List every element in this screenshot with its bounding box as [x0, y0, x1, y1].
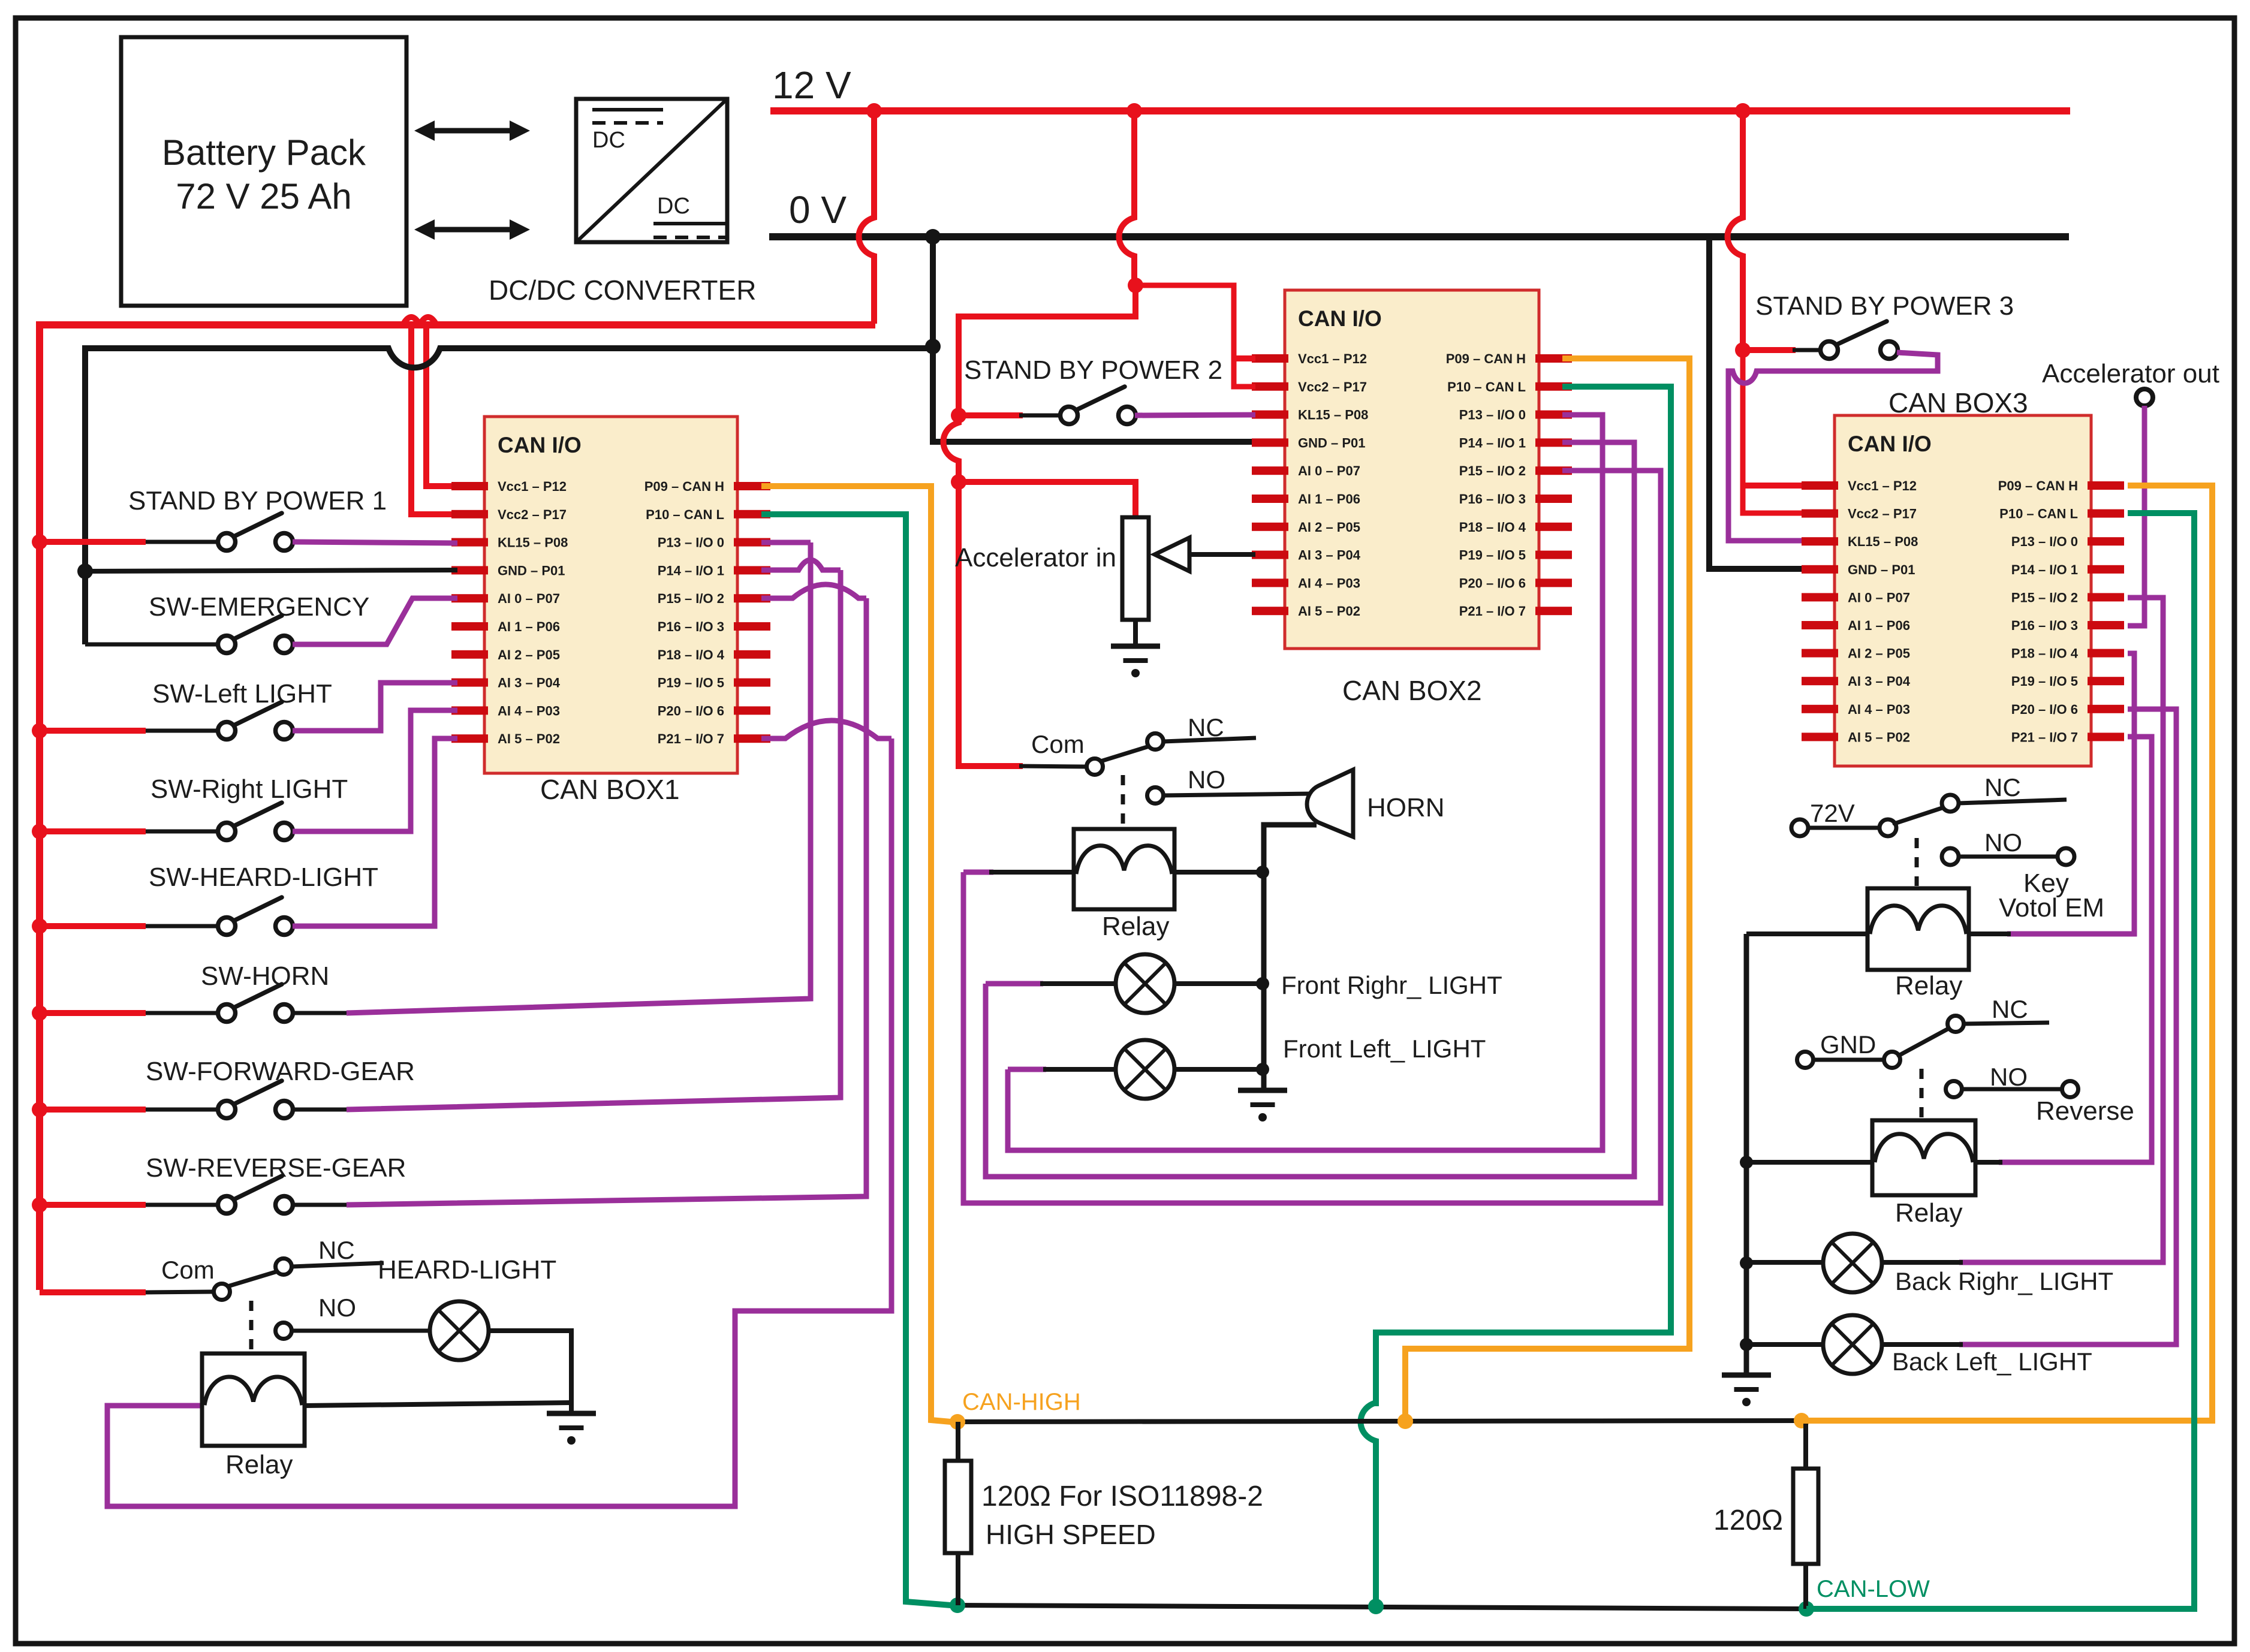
STAND BY POWER 3 label	[1755, 291, 2014, 321]
svg-text:P13 – I/O 0: P13 – I/O 0	[2011, 534, 2078, 549]
node rail feed S-LEFT	[32, 723, 47, 738]
HEARD-LIGHT label	[378, 1255, 556, 1285]
wire K3 coil right black	[1969, 931, 2011, 936]
relay K1 coil	[202, 1353, 305, 1446]
svg-text:SW-Right LIGHT: SW-Right LIGHT	[150, 774, 348, 804]
wire red drop (hops black GND wire)	[944, 417, 959, 480]
wire black feed S-SBP1	[146, 540, 219, 544]
CAN BOX1 label	[540, 774, 680, 805]
svg-text:NC: NC	[1188, 713, 1224, 741]
svg-text:Accelerator in: Accelerator in	[955, 543, 1116, 572]
svg-text:STAND BY POWER 3: STAND BY POWER 3	[1755, 291, 2014, 321]
svg-text:P16 – I/O 3: P16 – I/O 3	[1459, 492, 1526, 507]
SW-Right LIGHT label	[150, 774, 348, 804]
switch S-SBP1	[218, 513, 293, 551]
wire trunk to K3 coil	[1746, 931, 1868, 936]
node trunk-FR	[1256, 977, 1269, 990]
relay K2 NO contact	[1147, 788, 1315, 804]
SW-Left LIGHT label	[152, 679, 332, 709]
svg-text:Back Righr_ LIGHT: Back Righr_ LIGHT	[1895, 1267, 2113, 1295]
relay K3 NC contact	[1942, 795, 2067, 812]
Relay label K4	[1895, 1198, 1963, 1228]
svg-text:P09 – CAN H: P09 – CAN H	[1446, 351, 1526, 366]
svg-text:AI 1 – P06: AI 1 – P06	[1298, 492, 1360, 507]
svg-text:P19 – I/O 5: P19 – I/O 5	[1459, 548, 1526, 563]
wire B1-P21 to relay K1	[107, 738, 891, 1506]
node trunk-BL	[1740, 1338, 1753, 1351]
svg-text:AI 3 – P04: AI 3 – P04	[498, 676, 561, 691]
svg-text:DC: DC	[657, 194, 690, 219]
ground G1	[1111, 646, 1160, 677]
svg-text:GND – P01: GND – P01	[498, 563, 565, 578]
relay K2 coil	[1074, 829, 1174, 909]
node black rail junction	[925, 339, 941, 354]
wire FL lamp right	[1173, 1067, 1263, 1072]
wire K1 coil to ground drop	[305, 1403, 571, 1406]
Com label K1	[161, 1256, 215, 1284]
wire S-LEFT to AI3	[293, 683, 457, 731]
wire B2 CAN-L teal	[1376, 387, 1671, 1406]
relay K2 common	[1087, 759, 1103, 775]
wire K2 coil left purple	[963, 870, 993, 875]
svg-text:AI 4 – P03: AI 4 – P03	[498, 703, 560, 718]
svg-text:KL15 – P08: KL15 – P08	[1848, 534, 1918, 549]
switch S-RIGHT	[218, 803, 293, 840]
wire Vcc feed drop B1-Vcc1	[426, 325, 457, 486]
CAN BOX2 label	[1342, 675, 1482, 706]
relay K1 NC contact	[276, 1259, 384, 1275]
svg-text:Vcc2 – P17: Vcc2 – P17	[498, 507, 567, 522]
node accelerator feed	[951, 474, 966, 490]
wire B2 CAN-L hop over CAN-HIGH	[1361, 1403, 1376, 1600]
node SBP2 feed	[951, 408, 966, 423]
svg-text:P16 – I/O 3: P16 – I/O 3	[2011, 618, 2078, 633]
svg-text:Front Righr_ LIGHT: Front Righr_ LIGHT	[1281, 971, 1502, 999]
svg-text:P15 – I/O 2: P15 – I/O 2	[2011, 590, 2078, 605]
svg-text:SW-EMERGENCY: SW-EMERGENCY	[149, 592, 369, 622]
CAN BOX2 U3	[1252, 290, 1572, 649]
node CAN-LOW right	[1799, 1601, 1814, 1617]
arrow battery-converter top	[414, 120, 530, 141]
wire GNDsw to pivot	[1814, 1058, 1884, 1062]
wire B2-P13 to FL lamp	[1008, 415, 1603, 1150]
node SBP3 feed	[1735, 342, 1751, 358]
wire black feed S-EMG	[85, 643, 219, 647]
node rail feed S-HEARD	[32, 918, 47, 934]
NC label K1	[318, 1236, 355, 1264]
svg-text:P19 – I/O 5: P19 – I/O 5	[658, 676, 724, 691]
svg-text:P16 – I/O 3: P16 – I/O 3	[658, 619, 724, 634]
svg-text:NO: NO	[1188, 765, 1225, 794]
CAN BOX3 U4	[1802, 415, 2124, 766]
relay K1 NO contact	[276, 1323, 430, 1339]
relay K2 lever	[1101, 746, 1151, 761]
resistor R1 120ohm	[945, 1461, 971, 1553]
wire pot to ground	[1133, 620, 1138, 646]
wire red drop to horn relay Com	[959, 482, 1023, 766]
svg-text:P15 – I/O 2: P15 – I/O 2	[658, 591, 724, 606]
wire B1-P14 run (arc over P13)	[761, 560, 841, 570]
wire red to K1 Com	[40, 1289, 146, 1295]
svg-text:P13 – I/O 0: P13 – I/O 0	[658, 535, 724, 550]
wire black K2 Com	[1019, 766, 1086, 767]
node trunk-K2	[1256, 866, 1269, 879]
svg-text:P21 – I/O 7: P21 – I/O 7	[2011, 729, 2078, 744]
wire black K1 Com	[146, 1292, 213, 1292]
node CAN-LOW left	[950, 1597, 965, 1613]
svg-text:Vcc2 – P17: Vcc2 – P17	[1298, 379, 1367, 394]
wire SBP2 purple to KL15	[1135, 415, 1255, 415]
Back Left_ LIGHT label	[1892, 1347, 2092, 1376]
svg-text:P10 – CAN L: P10 – CAN L	[1999, 507, 2078, 521]
svg-text:STAND BY POWER 1: STAND BY POWER 1	[128, 486, 387, 516]
wire B3-P21 to K4 coil	[1999, 737, 2152, 1162]
Relay label K3	[1895, 971, 1963, 1000]
wire black feed S-LEFT	[146, 729, 219, 733]
wire BR lamp right black	[1880, 1260, 1963, 1265]
node 12V-A	[866, 103, 882, 119]
wire K2 coil left black	[989, 870, 1074, 875]
switch S-LEFT	[218, 702, 293, 740]
0V label	[789, 188, 847, 231]
svg-text:CAN BOX1: CAN BOX1	[540, 774, 680, 805]
wire red feed S-HORN	[40, 1010, 146, 1016]
wire black feed S-RIGHT	[146, 830, 219, 834]
relay K2 dashed link	[1121, 775, 1125, 827]
ground G4	[1722, 1375, 1771, 1406]
svg-text:AI 0 – P07: AI 0 – P07	[1298, 463, 1360, 478]
NO label K1	[318, 1294, 356, 1322]
Relay label K2	[1102, 912, 1170, 941]
wire red drop B (hops 0V)	[1119, 111, 1135, 285]
svg-text:DC: DC	[592, 128, 625, 153]
node black rail tap	[77, 563, 93, 579]
wire FL lamp left black	[1043, 1067, 1117, 1072]
node CAN-HIGH left	[950, 1414, 965, 1430]
STAND BY POWER 1 label	[128, 486, 387, 516]
CAN-HIGH label	[962, 1389, 1081, 1415]
terminal 72V	[1791, 819, 1808, 836]
CAN BOX3 label	[1888, 387, 2028, 418]
svg-text:P09 – CAN H: P09 – CAN H	[644, 479, 724, 494]
svg-text:72 V 25 Ah: 72 V 25 Ah	[176, 176, 352, 216]
svg-text:CAN I/O: CAN I/O	[1298, 306, 1382, 331]
CAN-LOW label	[1817, 1576, 1930, 1602]
DC/DC converter label	[489, 275, 756, 306]
wire trunk to K4 coil	[1746, 1160, 1872, 1165]
svg-text:AI 0 – P07: AI 0 – P07	[498, 591, 560, 606]
svg-text:GND: GND	[1820, 1030, 1876, 1059]
terminal K4 NO out	[2062, 1081, 2079, 1098]
node trunk-BR	[1740, 1256, 1753, 1270]
resistor R2 stub top	[1803, 1421, 1808, 1469]
wire black feed S-FWD	[146, 1108, 219, 1112]
svg-text:AI 0 – P07: AI 0 – P07	[1848, 590, 1910, 605]
svg-text:P13 – I/O 0: P13 – I/O 0	[1459, 408, 1526, 423]
wire black to BOX1 GND	[85, 570, 457, 571]
wire SBP3 black stub	[1793, 348, 1821, 352]
relay K3 NO contact	[1942, 848, 2058, 865]
svg-text:P10 – CAN L: P10 – CAN L	[1447, 379, 1526, 394]
svg-text:SW-HORN: SW-HORN	[201, 961, 329, 991]
wire FR lamp left black	[1040, 981, 1117, 986]
svg-text:GND – P01: GND – P01	[1848, 562, 1915, 577]
terminal K3 NO out	[2058, 848, 2074, 865]
wire CAN-LOW bus	[957, 1605, 1806, 1609]
svg-text:HIGH SPEED: HIGH SPEED	[986, 1519, 1156, 1550]
NC label K3	[1984, 773, 2021, 801]
svg-text:P14 – I/O 1: P14 – I/O 1	[2011, 562, 2078, 577]
potentiometer RV1	[1122, 517, 1189, 620]
SW-HEARD-LIGHT label	[149, 863, 378, 892]
relay K1 lever	[228, 1271, 279, 1286]
wire 0V drop to B3 GND	[1709, 237, 1802, 569]
terminal GND sw	[1797, 1052, 1814, 1068]
svg-text:AI 3 – P04: AI 3 – P04	[1848, 674, 1911, 689]
svg-text:Front Left_ LIGHT: Front Left_ LIGHT	[1283, 1035, 1486, 1063]
wire FR lamp left purple	[986, 981, 1043, 987]
svg-text:GND – P01: GND – P01	[1298, 435, 1366, 450]
wire red drop B lower	[959, 285, 1135, 414]
svg-text:Vcc1 – P12: Vcc1 – P12	[1298, 351, 1367, 366]
R1 label	[981, 1481, 1263, 1550]
CAN BOX1 U2	[451, 417, 770, 773]
wire lamp to ground drop	[489, 1331, 571, 1413]
wire 72V to pivot	[1808, 826, 1879, 830]
lamp FRONT-RIGHT	[1116, 954, 1174, 1013]
svg-text:NC: NC	[318, 1236, 355, 1264]
ground G3	[1238, 1090, 1287, 1122]
wire FR lamp right	[1173, 981, 1263, 986]
svg-text:Votol EM: Votol EM	[1999, 893, 2104, 923]
wire accel out to B3-P16	[2128, 406, 2144, 626]
node CAN-HIGH mid	[1397, 1413, 1413, 1429]
wire red drop to B3 Vcc	[1743, 350, 1802, 513]
wire B2-P14 to FR lamp	[986, 442, 1634, 1177]
svg-text:AI 5 – P02: AI 5 – P02	[1848, 729, 1910, 744]
svg-text:AI 1 – P06: AI 1 – P06	[498, 619, 560, 634]
wire BL lamp right black	[1882, 1342, 1963, 1347]
wire SBP1 to KL15	[293, 542, 457, 543]
HORN label	[1367, 793, 1445, 822]
wire red feed S-FWD	[40, 1107, 146, 1113]
node rail feed S-FWD	[32, 1102, 47, 1117]
wire S-FWD to P14	[347, 570, 841, 1110]
node rail feed S-RIGHT	[32, 824, 47, 839]
switch S-REV	[218, 1176, 293, 1214]
svg-text:DC/DC CONVERTER: DC/DC CONVERTER	[489, 275, 756, 306]
svg-text:P18 – I/O 4: P18 – I/O 4	[1459, 520, 1526, 535]
svg-text:Battery Pack: Battery Pack	[162, 132, 366, 173]
wire horn trunk	[1264, 825, 1317, 1090]
svg-text:CAN I/O: CAN I/O	[498, 433, 582, 457]
wire red SBP2 stub	[959, 412, 1023, 418]
node trunk-K4	[1740, 1156, 1753, 1169]
svg-text:P18 – I/O 4: P18 – I/O 4	[658, 647, 725, 662]
svg-text:P15 – I/O 2: P15 – I/O 2	[1459, 463, 1526, 478]
node 12V-C	[1735, 103, 1751, 119]
svg-text:AI 2 – P05: AI 2 – P05	[1298, 520, 1360, 535]
wire K4 coil right black	[1975, 1160, 2002, 1165]
svg-text:AI 3 – P04: AI 3 – P04	[1298, 548, 1361, 563]
wire red feed S-REV	[40, 1202, 146, 1208]
svg-text:CAN BOX2: CAN BOX2	[1342, 675, 1482, 706]
svg-text:Vcc2 – P17: Vcc2 – P17	[1848, 507, 1917, 521]
svg-text:Vcc1 – P12: Vcc1 – P12	[498, 479, 567, 494]
relay K4 NC contact	[1948, 1016, 2050, 1032]
battery pack B1 box	[121, 37, 406, 306]
SW-REVERSE-GEAR label	[146, 1153, 406, 1183]
wire CAN-HIGH bus	[957, 1421, 1802, 1422]
wire black feed S-HORN	[146, 1011, 219, 1015]
relay K3 coil	[1868, 888, 1969, 970]
switch S-EMG	[218, 616, 293, 653]
wire SBP3 purple to KL15	[1728, 352, 1938, 541]
Back Righr_ LIGHT label	[1895, 1267, 2113, 1295]
node rail feed S-HORN	[32, 1005, 47, 1021]
node black-0V junction	[925, 229, 941, 245]
wire S-HORN black	[293, 1011, 347, 1015]
DC/DC converter U1	[576, 99, 727, 242]
svg-text:Com: Com	[1031, 730, 1085, 758]
wire red to potentiometer	[959, 482, 1135, 517]
svg-text:Accelerator out: Accelerator out	[2042, 359, 2219, 388]
relay K4 NO contact	[1946, 1081, 2062, 1098]
lamp BACK-LEFT	[1823, 1315, 1882, 1374]
relay K1 common	[214, 1284, 230, 1300]
svg-text:NO: NO	[1984, 828, 2022, 857]
svg-text:Com: Com	[161, 1256, 215, 1284]
NO label K3	[1984, 828, 2022, 857]
svg-text:CAN I/O: CAN I/O	[1848, 432, 1932, 456]
arrow battery-converter bottom	[414, 219, 530, 240]
svg-text:P20 – I/O 6: P20 – I/O 6	[2011, 702, 2078, 717]
svg-text:Vcc1 – P12: Vcc1 – P12	[1848, 478, 1917, 493]
svg-text:NO: NO	[1990, 1063, 2028, 1091]
wire red feed S-HEARD	[40, 923, 146, 929]
SW-FORWARD-GEAR label	[146, 1057, 415, 1086]
svg-text:AI 5 – P02: AI 5 – P02	[498, 731, 560, 746]
Com label K2	[1031, 730, 1085, 758]
wire B2-P15 to K2 coil	[963, 471, 1661, 1203]
NO label K2	[1188, 765, 1225, 794]
wire S-REV to P15	[347, 598, 866, 1205]
svg-text:SW-HEARD-LIGHT: SW-HEARD-LIGHT	[149, 863, 378, 892]
node trunk-FL	[1256, 1063, 1269, 1076]
terminal accelerator out	[2136, 389, 2153, 406]
12V label	[772, 64, 851, 107]
node CAN-HIGH right	[1794, 1413, 1809, 1428]
wire SBP2 black stub	[1019, 414, 1061, 418]
lamp FRONT-LEFT	[1116, 1040, 1174, 1099]
GND label	[1820, 1030, 1876, 1059]
svg-text:P21 – I/O 7: P21 – I/O 7	[658, 731, 724, 746]
svg-text:NC: NC	[1984, 773, 2021, 801]
svg-text:0 V: 0 V	[789, 188, 847, 231]
svg-text:Relay: Relay	[1895, 971, 1963, 1000]
svg-text:AI 2 – P05: AI 2 – P05	[498, 647, 560, 662]
svg-text:P14 – I/O 1: P14 – I/O 1	[1459, 435, 1526, 450]
SW-EMERGENCY label	[149, 592, 369, 622]
switch S-HORN	[218, 984, 293, 1022]
wire B2 CAN-H orange	[1405, 358, 1689, 1416]
lamp HEARD-LIGHT	[430, 1301, 489, 1360]
svg-text:NO: NO	[318, 1294, 356, 1322]
wire red drop C (hops 0V)	[1728, 111, 1743, 348]
svg-text:SW-Left LIGHT: SW-Left LIGHT	[152, 679, 332, 709]
wire B3-P15 to BR lamp	[1959, 598, 2163, 1262]
wire wiper to AI3	[1189, 552, 1255, 557]
node red-B junction	[1128, 278, 1143, 293]
relay K3 common	[1879, 819, 1896, 836]
Relay label K1	[225, 1450, 293, 1479]
wire S-HEARD to AI5	[293, 738, 457, 926]
wire B1 CAN-H orange	[761, 486, 951, 1422]
wire BR lamp left	[1746, 1260, 1825, 1265]
Front Righr_ LIGHT label	[1281, 971, 1502, 999]
wire red feed S-LEFT	[40, 728, 146, 734]
wire left red rail	[40, 325, 875, 1290]
svg-text:AI 2 – P05: AI 2 – P05	[1848, 646, 1910, 661]
STAND BY POWER 2 label	[964, 355, 1222, 385]
svg-text:HEARD-LIGHT: HEARD-LIGHT	[378, 1255, 556, 1285]
svg-text:AI 1 – P06: AI 1 – P06	[1848, 618, 1910, 633]
wire black feed S-REV	[146, 1203, 219, 1207]
svg-text:AI 4 – P03: AI 4 – P03	[1848, 702, 1910, 717]
wire 0V bus	[769, 233, 2069, 240]
wire S-REV black	[293, 1203, 347, 1207]
horn LS1	[1307, 770, 1353, 837]
wire red SBP3 stub	[1743, 347, 1796, 353]
R2 label	[1713, 1505, 1783, 1536]
wire black feed S-HEARD	[146, 924, 219, 929]
svg-text:CAN-LOW: CAN-LOW	[1817, 1576, 1930, 1602]
wire red drop A (hops 0V)	[859, 111, 875, 324]
relay K2 NC contact	[1147, 734, 1257, 750]
svg-text:72V: 72V	[1810, 799, 1855, 827]
node rail feed S-REV	[32, 1197, 47, 1213]
resistor R2 120ohm	[1793, 1469, 1818, 1564]
svg-text:STAND BY POWER 2: STAND BY POWER 2	[964, 355, 1222, 385]
Front Left_ LIGHT label	[1283, 1035, 1486, 1063]
wire 0V drop to BOX2 GND	[933, 237, 1255, 442]
wire S-RIGHT to AI4	[293, 710, 457, 831]
svg-text:AI 5 – P02: AI 5 – P02	[1298, 604, 1360, 619]
switch S-SBP2	[1061, 387, 1136, 424]
NC label K4	[1992, 995, 2028, 1023]
relay K1 dashed link	[249, 1301, 254, 1352]
resistor R1 stub bottom	[956, 1553, 960, 1605]
resistor R2 stub bottom	[1803, 1564, 1808, 1609]
wire K2 coil right	[1174, 870, 1263, 875]
svg-text:P10 – CAN L: P10 – CAN L	[646, 507, 724, 522]
Accelerator out label	[2042, 359, 2219, 388]
wire B1 CAN-L teal	[761, 514, 951, 1605]
svg-text:CAN-HIGH: CAN-HIGH	[962, 1389, 1081, 1415]
wire red feed S-RIGHT	[40, 828, 146, 834]
wire B1-P15 run (arc)	[761, 584, 866, 598]
wire B1-P21 run (arc)	[761, 721, 891, 738]
switch S-SBP3	[1821, 321, 1898, 359]
svg-text:Relay: Relay	[1102, 912, 1170, 941]
relay K4 dashed link	[1920, 1069, 1924, 1118]
svg-text:KL15 – P08: KL15 – P08	[498, 535, 568, 550]
svg-text:CAN BOX3: CAN BOX3	[1888, 387, 2028, 418]
relay K4 common	[1884, 1052, 1900, 1068]
wire B1-P13 stub run	[761, 540, 811, 545]
72V label	[1810, 799, 1855, 827]
node CAN-LOW mid	[1368, 1599, 1384, 1614]
